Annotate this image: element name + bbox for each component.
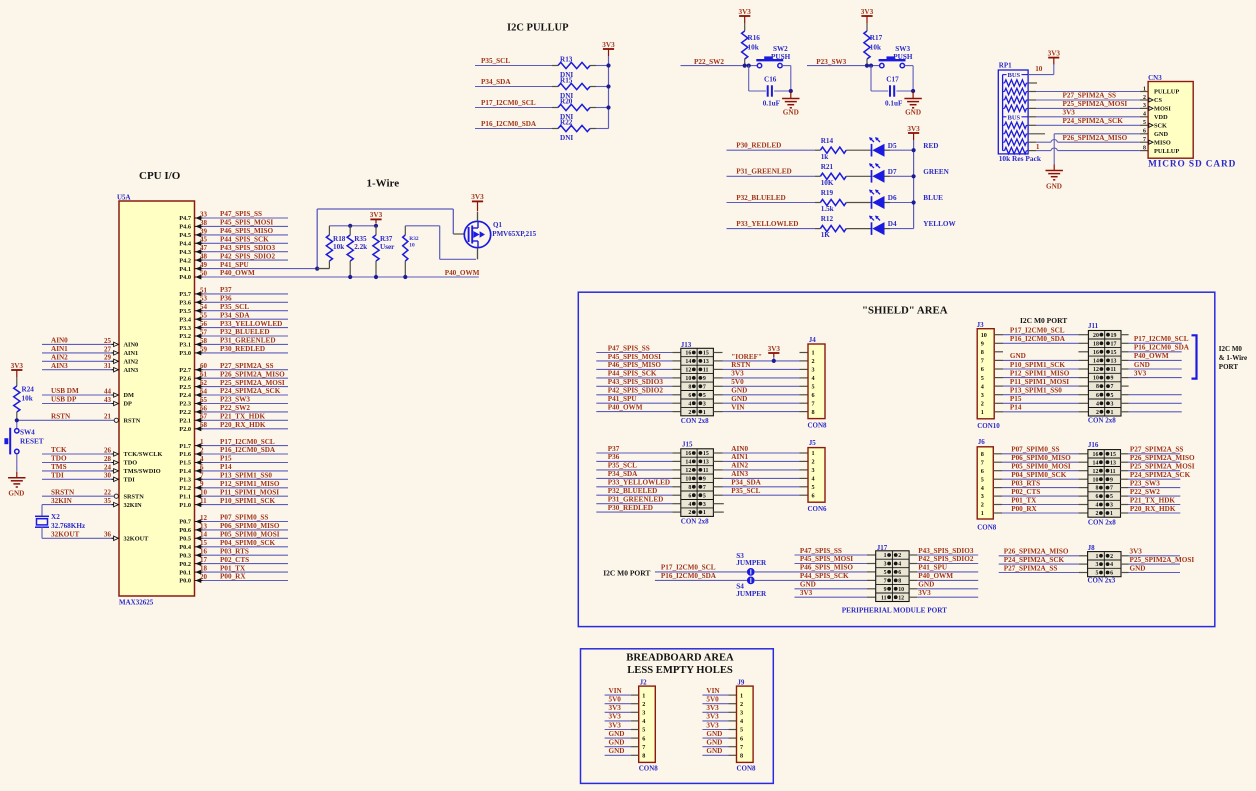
svg-text:13: 13 (1110, 460, 1116, 466)
svg-text:P42_SPIS_SDIO2: P42_SPIS_SDIO2 (918, 555, 974, 563)
resistor R37 User (373, 226, 395, 277)
svg-text:P40_OWM: P40_OWM (918, 572, 953, 580)
svg-text:3: 3 (703, 401, 706, 407)
wire net GND (J2 pin 8) (605, 747, 639, 755)
svg-text:5: 5 (703, 393, 706, 399)
svg-text:39: 39 (200, 227, 208, 235)
svg-text:AIN3: AIN3 (731, 470, 748, 478)
svg-text:1: 1 (1143, 86, 1146, 92)
svg-text:2: 2 (812, 459, 815, 466)
svg-text:P0.3: P0.3 (179, 552, 191, 559)
wire J11 right net GND (1121, 361, 1182, 369)
svg-text:25: 25 (104, 337, 112, 345)
svg-text:J15: J15 (682, 440, 693, 448)
svg-text:P3.4: P3.4 (179, 316, 192, 323)
resistor R17 10k (864, 23, 883, 66)
svg-text:P17_I2CM0_SCL: P17_I2CM0_SCL (1010, 327, 1065, 335)
svg-text:4: 4 (1095, 503, 1098, 509)
svg-text:7: 7 (703, 485, 706, 491)
wire J4 pin1 stub (800, 352, 809, 354)
svg-text:2: 2 (1143, 95, 1146, 101)
svg-text:RSTN: RSTN (51, 413, 71, 421)
wire net P23_SW3 (J16 right) (1121, 479, 1181, 487)
svg-text:12: 12 (200, 514, 208, 522)
wire J11 right net P40_OWM (1121, 352, 1182, 360)
svg-text:P26_SPIM2A_MISO: P26_SPIM2A_MISO (220, 370, 285, 378)
svg-text:10k: 10k (22, 395, 33, 403)
svg-text:R37: R37 (380, 235, 393, 243)
bracket I2C M0 and 1-Wire PORT (1192, 335, 1197, 378)
svg-text:P14: P14 (1010, 404, 1022, 412)
power 3V3 (LED rail) (907, 125, 920, 140)
title BREADBOARD AREA LESS EMPTY HOLES (626, 653, 734, 677)
svg-text:AIN1: AIN1 (124, 350, 139, 357)
svg-text:P31_GREENLED: P31_GREENLED (736, 168, 792, 176)
svg-text:11: 11 (1111, 367, 1117, 373)
wire RP1 to CN3 pin 4 net 3V3 (1028, 108, 1148, 116)
pin 53 net P36 (179, 295, 288, 307)
pin 10 net P11_SPIM1_MOSI (179, 488, 288, 500)
power 3V3 (Q1) (471, 193, 484, 211)
svg-text:32.768KHz: 32.768KHz (51, 522, 86, 530)
svg-text:3V3: 3V3 (609, 704, 622, 712)
junction (606, 63, 610, 67)
wire net AIN3 (J15 to J5) (713, 470, 808, 478)
svg-text:P4.5: P4.5 (179, 232, 191, 239)
pin 28 net TDO (42, 455, 137, 467)
svg-text:7: 7 (200, 472, 204, 480)
svg-text:MAX32625: MAX32625 (119, 599, 154, 607)
svg-text:65: 65 (200, 396, 208, 404)
svg-text:13: 13 (200, 522, 208, 530)
svg-text:J9: J9 (737, 678, 745, 686)
svg-text:P0.5: P0.5 (179, 536, 191, 543)
connector J17 CON 2x6 peripheral module port (876, 544, 909, 602)
svg-text:5: 5 (812, 484, 815, 491)
wire net 3V3 (J9 pin 5) (702, 721, 736, 729)
svg-text:14: 14 (685, 359, 691, 365)
svg-text:4: 4 (688, 401, 691, 407)
connector J3 CON10 (977, 321, 1001, 430)
svg-text:R17: R17 (870, 34, 883, 42)
svg-text:1: 1 (642, 692, 645, 699)
svg-text:P4.0: P4.0 (179, 274, 191, 281)
svg-text:2: 2 (898, 553, 901, 559)
svg-text:2: 2 (812, 358, 815, 365)
svg-text:2: 2 (688, 410, 691, 416)
wire net P21_TX_HDK (J16 right) (1121, 496, 1181, 504)
svg-text:P41_SPU: P41_SPU (918, 564, 948, 572)
power 3V3 (SW3) (861, 8, 874, 23)
svg-text:P11_SPIM1_MOSI: P11_SPIM1_MOSI (1010, 378, 1069, 386)
svg-text:8: 8 (812, 409, 815, 416)
wire J11 right net 3V3 (1121, 369, 1182, 377)
junction LED rail (912, 148, 916, 152)
svg-text:GND: GND (1046, 182, 1062, 190)
svg-text:26: 26 (104, 446, 112, 454)
pin 12 net P07_SPIM0_SS (179, 514, 288, 526)
svg-text:P42_SPIS_SDIO2: P42_SPIS_SDIO2 (608, 387, 664, 395)
svg-text:8: 8 (688, 485, 691, 491)
svg-text:16: 16 (685, 351, 691, 357)
label RED (923, 142, 938, 150)
wire net GND (J17 right) (909, 581, 978, 589)
svg-text:33: 33 (200, 210, 208, 218)
svg-text:R24: R24 (22, 386, 35, 394)
svg-text:P47_SPIS_SS: P47_SPIS_SS (800, 547, 842, 555)
wire net P27_SPIM2A_SS (J16 right) (1121, 446, 1184, 454)
svg-text:49: 49 (200, 261, 208, 269)
svg-text:D5: D5 (888, 142, 897, 150)
svg-text:50: 50 (200, 269, 208, 277)
pin 31 net AIN3 (42, 362, 138, 374)
svg-text:CS: CS (1154, 97, 1163, 104)
svg-text:5: 5 (740, 727, 743, 734)
wire net RSTN (J13 to J4) (713, 361, 808, 369)
svg-text:P21_TX_HDK: P21_TX_HDK (220, 413, 266, 421)
svg-text:CON 2x8: CON 2x8 (681, 518, 709, 526)
wire SW4 to ground (16, 454, 18, 472)
svg-text:BREADBOARD AREA: BREADBOARD AREA (626, 653, 734, 664)
svg-text:P23_SW3: P23_SW3 (816, 58, 846, 66)
svg-text:P04_SPIM0_SCK: P04_SPIM0_SCK (1011, 471, 1067, 479)
svg-text:TMS: TMS (51, 463, 67, 471)
svg-text:22: 22 (104, 489, 112, 497)
wire 3V3 pullup rail vertical (608, 56, 610, 129)
svg-text:CON 2x3: CON 2x3 (1088, 576, 1116, 584)
svg-text:20: 20 (200, 573, 208, 581)
svg-text:CON10: CON10 (977, 422, 1000, 430)
title CPU I/O (139, 170, 181, 182)
svg-text:P14: P14 (220, 463, 232, 471)
resistor R16 10k (742, 23, 761, 66)
svg-text:GND: GND (1134, 361, 1150, 369)
wire net P41_SPU (J13 pin 4) (596, 395, 681, 403)
pin 2 net P16_I2CM0_SDA (179, 446, 288, 458)
svg-text:P34_SDA: P34_SDA (220, 311, 250, 319)
svg-text:18: 18 (200, 565, 208, 573)
power 3V3 (reset pullup) (11, 362, 24, 377)
resistor R18 10k (317, 226, 346, 269)
wire net P33_YELLOWLED (727, 220, 816, 229)
svg-text:P3.5: P3.5 (179, 308, 191, 315)
svg-text:9: 9 (200, 480, 204, 488)
title 1-Wire (367, 178, 400, 190)
svg-text:3V3: 3V3 (1063, 108, 1076, 116)
wire net 3V3 (J17 right) (909, 589, 978, 597)
svg-text:59: 59 (200, 345, 208, 353)
svg-text:7: 7 (884, 579, 887, 585)
wire net P32_BLUELED (727, 194, 816, 203)
wire J13 pin15 stub (713, 352, 722, 354)
svg-text:38: 38 (200, 219, 208, 227)
svg-text:10: 10 (898, 587, 904, 593)
wire net P16_I2CM0_SDA (J3 to J11) (994, 335, 1088, 343)
connector J5 CON6 (808, 439, 828, 513)
svg-text:9: 9 (981, 341, 984, 348)
svg-text:64: 64 (200, 387, 208, 395)
svg-text:3: 3 (812, 367, 815, 374)
svg-text:3: 3 (884, 562, 887, 568)
svg-text:J2: J2 (640, 678, 648, 686)
wire net GND (J3 to J11) (994, 352, 1088, 360)
svg-text:P41_SPU: P41_SPU (220, 261, 250, 269)
wire net P16_I2CM0_SDA (475, 120, 552, 128)
svg-text:AIN1: AIN1 (731, 453, 748, 461)
svg-text:P22_SW2: P22_SW2 (1130, 488, 1160, 496)
resistor R15 DNI (552, 77, 609, 101)
label I2C M0 & 1-Wire PORT (1219, 345, 1247, 371)
svg-text:P43_SPIS_SDIO3: P43_SPIS_SDIO3 (220, 244, 276, 252)
svg-text:3V3: 3V3 (471, 193, 484, 201)
svg-text:CPU I/O: CPU I/O (139, 170, 181, 182)
wire net P27_SPIM2A_SS (J8 left) (999, 564, 1088, 572)
wire cap branch right (896, 66, 913, 91)
wire net P47_SPIS_SS (J13 pin 16) (596, 344, 681, 352)
svg-text:62: 62 (200, 379, 208, 387)
svg-text:54: 54 (200, 303, 208, 311)
svg-text:17: 17 (1111, 341, 1117, 347)
svg-text:3: 3 (1110, 503, 1113, 509)
wire RSTN rail (17, 420, 42, 428)
connector J9 CON8 (737, 678, 757, 772)
pin 1 net P17_I2CM0_SCL (179, 438, 288, 450)
wire net P00_RX (J6 to J16) (993, 505, 1088, 513)
svg-text:P1.0: P1.0 (179, 502, 191, 509)
svg-text:29: 29 (104, 354, 112, 362)
connector J6 CON8 (977, 438, 997, 532)
wire net 3V3 (J2 pin 5) (605, 721, 639, 729)
svg-text:P44_SPIS_SCK: P44_SPIS_SCK (800, 572, 849, 580)
svg-text:P05_SPIM0_MOSI: P05_SPIM0_MOSI (1011, 463, 1071, 471)
svg-text:6: 6 (812, 392, 815, 399)
svg-text:16: 16 (200, 548, 208, 556)
pin 13 net P06_SPIM0_MISO (179, 522, 288, 534)
svg-text:16: 16 (685, 451, 691, 457)
svg-text:17: 17 (200, 556, 208, 564)
svg-text:RSTN: RSTN (124, 418, 141, 425)
wire net P24_SPIM2A_SCK (J16 right) (1121, 471, 1191, 479)
ground (SW3) (904, 92, 921, 117)
svg-text:"IOREF": "IOREF" (731, 353, 762, 361)
svg-text:J5: J5 (809, 439, 817, 447)
svg-text:1.5k: 1.5k (821, 205, 834, 213)
svg-text:P35_SCL: P35_SCL (220, 303, 249, 311)
wire J15 stub row 7 (713, 503, 723, 505)
svg-text:P15: P15 (1010, 395, 1022, 403)
power 3V3 (1-Wire) (370, 211, 383, 223)
wire R32 rail to Q1 source (405, 226, 476, 259)
svg-text:J13: J13 (681, 341, 692, 349)
svg-text:1: 1 (1036, 143, 1040, 151)
pin 65 net P23_SW3 (179, 396, 288, 408)
pin 58 net P31_GREENLED (179, 337, 288, 349)
svg-text:4: 4 (200, 455, 204, 463)
wire net P43_SPIS_SDIO3 (J17 right) (909, 547, 978, 555)
connector J11 CON 2x8 (1088, 322, 1121, 424)
svg-text:2: 2 (1096, 410, 1099, 416)
svg-text:R21: R21 (821, 163, 834, 171)
svg-text:27: 27 (104, 345, 112, 353)
switch SW4 RESET (4, 428, 43, 455)
svg-text:P1.1: P1.1 (179, 493, 191, 500)
pin 35 net 32KIN (42, 497, 142, 509)
pin 9 net P12_SPIM1_MISO (179, 480, 288, 492)
switch SW3 PUSH (879, 45, 913, 68)
connector J16 CON 2x8 (1088, 441, 1121, 527)
svg-text:4: 4 (812, 476, 815, 483)
svg-text:P21_TX_HDK: P21_TX_HDK (1130, 496, 1176, 504)
svg-text:CON8: CON8 (737, 764, 757, 772)
wire pullup top rail (329, 225, 376, 227)
svg-text:P3.6: P3.6 (179, 300, 191, 307)
wire net 3V3 (J8 right) (1121, 548, 1180, 556)
svg-text:SW2: SW2 (773, 45, 788, 53)
wire net GND (J9 pin 6) (702, 730, 736, 738)
svg-text:3: 3 (981, 493, 984, 500)
power 3V3 (I2C pullup rail) (602, 41, 615, 56)
wire net P10_SPIM1_SCK (J3 to J11) (994, 361, 1088, 369)
svg-text:P0.0: P0.0 (179, 578, 191, 585)
wire RP1 pin 10 to 3V3 (1028, 64, 1054, 75)
svg-text:GND: GND (706, 739, 722, 747)
resistor pack RP1 10k (998, 70, 1028, 154)
svg-text:P2.2: P2.2 (179, 409, 191, 416)
svg-text:P46_SPIS_MISO: P46_SPIS_MISO (608, 361, 662, 369)
ground (SW4) (8, 472, 25, 498)
svg-text:CON8: CON8 (808, 422, 828, 430)
svg-text:PULLUP: PULLUP (1154, 89, 1179, 96)
pin 21 net RSTN (42, 413, 141, 425)
svg-text:P03_RTS: P03_RTS (1011, 479, 1040, 487)
svg-text:P44_SPIS_SCK: P44_SPIS_SCK (608, 370, 657, 378)
svg-text:D6: D6 (888, 194, 897, 202)
LED D7 (869, 164, 913, 183)
svg-text:10: 10 (1093, 376, 1099, 382)
svg-text:16: 16 (1093, 350, 1099, 356)
svg-text:YELLOW: YELLOW (923, 220, 956, 228)
wire net 5V0 (J2 pin 2) (605, 696, 639, 704)
pin 55 net P34_SDA (179, 311, 288, 323)
svg-text:J4: J4 (809, 336, 817, 344)
svg-text:I2C M0 PORT: I2C M0 PORT (603, 568, 650, 577)
wire net P06_SPIM0_MISO (J6 to J16) (993, 454, 1088, 462)
svg-text:5: 5 (812, 384, 815, 391)
svg-text:DP: DP (124, 401, 133, 408)
power 3V3 (SW2) (739, 8, 752, 23)
wire net P22_SW2 (J16 right) (1121, 488, 1181, 496)
svg-text:P4.3: P4.3 (179, 249, 191, 256)
svg-text:P27_SPIM2A_SS: P27_SPIM2A_SS (1063, 92, 1117, 100)
wire J11 right stub (1121, 385, 1129, 387)
wire net 3V3 (J2 pin 3) (605, 704, 639, 712)
svg-text:3V3: 3V3 (706, 721, 719, 729)
svg-text:12: 12 (685, 468, 691, 474)
svg-text:14: 14 (685, 460, 691, 466)
svg-text:GND: GND (1010, 352, 1026, 360)
svg-text:P17_I2CM0_SCL: P17_I2CM0_SCL (661, 564, 716, 572)
svg-text:R15: R15 (560, 77, 573, 85)
svg-text:USB DP: USB DP (51, 396, 77, 404)
junction IOREF 3V3 (772, 359, 776, 363)
svg-text:P12_SPIM1_MISO: P12_SPIM1_MISO (1010, 369, 1070, 377)
svg-text:VIN: VIN (706, 687, 720, 695)
svg-text:SRSTN: SRSTN (51, 488, 75, 496)
svg-text:R13: R13 (560, 56, 573, 64)
svg-text:GND: GND (609, 747, 625, 755)
svg-text:15: 15 (703, 351, 709, 357)
wire J11 right (1121, 411, 1182, 413)
label RP1 / 10k Res Pack (999, 61, 1042, 163)
svg-text:VIN: VIN (731, 403, 745, 411)
wire net P40_OWM (J17 right) (909, 572, 978, 580)
svg-text:C16: C16 (764, 76, 777, 84)
svg-text:P24_SPIM2A_SCK: P24_SPIM2A_SCK (1063, 117, 1124, 125)
svg-text:P13_SPIM1_SS0: P13_SPIM1_SS0 (220, 472, 272, 480)
svg-text:51: 51 (200, 286, 208, 294)
pin 20 net P00_RX (179, 573, 288, 585)
svg-text:P34_SDA: P34_SDA (481, 78, 511, 86)
svg-text:GND: GND (1154, 131, 1168, 138)
svg-text:GREEN: GREEN (923, 168, 949, 176)
svg-text:10: 10 (685, 477, 691, 483)
jumper S3 (736, 552, 767, 575)
wire RP1 pin 9 stub (1028, 82, 1037, 84)
svg-text:3: 3 (1143, 103, 1146, 109)
svg-text:AIN2: AIN2 (51, 354, 68, 362)
svg-text:P01_TX: P01_TX (220, 564, 246, 572)
wire net P34_SDA (J15 pin 10) (596, 470, 681, 478)
svg-text:6: 6 (898, 570, 901, 576)
svg-text:24: 24 (104, 463, 112, 471)
wire net P20_RX_HDK (J16 right) (1121, 505, 1181, 513)
svg-text:P4.6: P4.6 (179, 224, 191, 231)
svg-text:JUMPER: JUMPER (736, 559, 767, 567)
svg-text:4: 4 (1096, 401, 1099, 407)
svg-text:P02_CTS: P02_CTS (220, 556, 249, 564)
svg-text:1: 1 (703, 510, 706, 516)
svg-text:56: 56 (200, 320, 208, 328)
svg-text:X2: X2 (51, 513, 60, 521)
resistor R32 10 (403, 226, 419, 277)
svg-text:P01_TX: P01_TX (1011, 496, 1037, 504)
svg-text:R20: R20 (560, 98, 573, 106)
title I2C M0 PORT (left) (603, 568, 650, 577)
pin 60 net P27_SPIM2A_SS (179, 362, 288, 374)
junction OWM row (348, 275, 407, 279)
svg-text:10k: 10k (333, 243, 344, 251)
wire net P23_SW3 (807, 58, 880, 66)
svg-text:P05_SPIM0_MOSI: P05_SPIM0_MOSI (220, 531, 280, 539)
svg-text:3V3: 3V3 (907, 125, 920, 133)
svg-text:5V0: 5V0 (731, 378, 744, 386)
crystal X2 32.768KHz (35, 505, 86, 539)
svg-text:10K: 10K (821, 179, 834, 187)
title SHIELD AREA (862, 305, 948, 317)
svg-text:3V3: 3V3 (609, 713, 622, 721)
svg-text:32KIN: 32KIN (51, 497, 73, 505)
svg-text:P1.3: P1.3 (179, 477, 191, 484)
wire net P45_SPIS_MOSI (J13 pin 14) (596, 353, 681, 361)
svg-text:3V3: 3V3 (1130, 548, 1143, 556)
svg-text:10: 10 (1093, 477, 1099, 483)
svg-text:P27_SPIM2A_SS: P27_SPIM2A_SS (220, 362, 274, 370)
svg-text:P40_OWM: P40_OWM (1134, 352, 1169, 360)
svg-text:P4.7: P4.7 (179, 215, 191, 222)
svg-text:P20_RX_HDK: P20_RX_HDK (1130, 505, 1176, 513)
svg-text:5: 5 (642, 727, 645, 734)
svg-text:P0.4: P0.4 (179, 544, 192, 551)
